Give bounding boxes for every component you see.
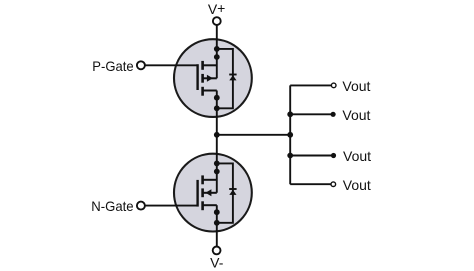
terminal P-Gate xyxy=(137,61,145,69)
svg-text:V-: V- xyxy=(210,255,224,271)
wire P-Gate terminal to Q1 gate xyxy=(145,64,197,66)
junction dot bus branch 2 xyxy=(287,111,293,117)
wire Vout branch 4 xyxy=(290,183,331,185)
Q1 source lead xyxy=(203,90,217,92)
junction dot Q2 source node xyxy=(214,209,220,215)
Q2 body arrow (points left: N-channel) xyxy=(205,189,211,196)
Q2 source lead xyxy=(203,204,217,206)
wire N-Gate terminal to Q2 gate xyxy=(145,205,197,207)
junction dot bus branch 3 xyxy=(287,153,293,159)
diode D2 triangle (anode, points up) xyxy=(229,190,236,195)
Q2 body-diode branch wire xyxy=(217,163,233,222)
Q2 drain lead xyxy=(203,179,217,181)
svg-text:Vout: Vout xyxy=(343,148,371,164)
junction dot bus-output xyxy=(287,132,293,138)
wire output bus vertical xyxy=(289,85,291,184)
diode D2 cathode bar xyxy=(229,188,236,190)
terminal Vout 2 (filled dot) xyxy=(331,112,336,117)
svg-text:Vout: Vout xyxy=(342,78,370,94)
svg-text:Vout: Vout xyxy=(343,177,371,193)
Q1 channel body segment xyxy=(201,74,204,83)
terminal Vout 4 (open) xyxy=(331,182,336,187)
diode D1 triangle (anode, points up) xyxy=(229,75,236,80)
Q2 gate bar xyxy=(196,180,198,207)
junction dot midpoint xyxy=(214,132,220,138)
wire V+ terminal to Q1 drain node (main vertical upper) xyxy=(216,25,218,78)
diode D1 cathode bar xyxy=(229,74,236,76)
Q1 body arrow (points right: P-channel) xyxy=(207,75,213,82)
transistor Q1 body circle (P-MOSFET) xyxy=(174,39,252,117)
junction dot Q2 drain node xyxy=(214,169,220,175)
junction dot Q1 source node xyxy=(214,95,220,101)
Q1 drain lead xyxy=(203,64,217,66)
terminal Vout 3 (filled dot) xyxy=(331,153,336,158)
wire Vout branch 1 xyxy=(290,84,331,86)
svg-text:N-Gate: N-Gate xyxy=(91,198,133,214)
junction dot Q1 source-diode xyxy=(214,105,220,111)
transistor Q2 body circle (N-MOSFET) xyxy=(174,154,252,232)
wire Q1 source to Q2 body (main vertical middle) xyxy=(216,91,218,193)
terminal V+ xyxy=(213,17,221,25)
Q2 channel drain segment xyxy=(201,175,204,184)
junction dot Q1 drain node xyxy=(214,54,220,60)
terminal V- xyxy=(213,247,221,255)
wire Vout branch 2 xyxy=(290,113,333,115)
svg-text:Vout: Vout xyxy=(342,107,370,123)
terminal N-Gate xyxy=(137,202,145,210)
Q2 channel body segment xyxy=(201,188,204,197)
junction dot Q2 source-diode xyxy=(214,220,220,226)
terminal Vout 1 (open) xyxy=(331,83,336,88)
Q1 body-diode branch wire xyxy=(217,49,233,108)
Q2 body lead xyxy=(203,192,217,194)
transistor Q1 (P-MOSFET symbol internals) xyxy=(198,46,237,111)
junction dot Q2 drain-diode xyxy=(214,161,220,167)
wire Q2 source to V- terminal (main vertical lower) xyxy=(216,205,218,246)
node output: wire from midpoint junction to bus xyxy=(217,134,290,136)
svg-text:P-Gate: P-Gate xyxy=(92,58,133,74)
Q1 channel source segment xyxy=(201,87,204,96)
Q2 channel source segment xyxy=(201,201,204,210)
transistor Q2 (N-MOSFET symbol internals) xyxy=(198,161,237,226)
junction dot Q1 drain-diode xyxy=(214,46,220,52)
svg-text:V+: V+ xyxy=(208,0,226,17)
Q1 body lead xyxy=(203,77,217,79)
Q1 gate bar xyxy=(196,64,198,90)
wire Vout branch 3 xyxy=(290,155,333,157)
Q1 channel drain segment xyxy=(201,61,204,70)
